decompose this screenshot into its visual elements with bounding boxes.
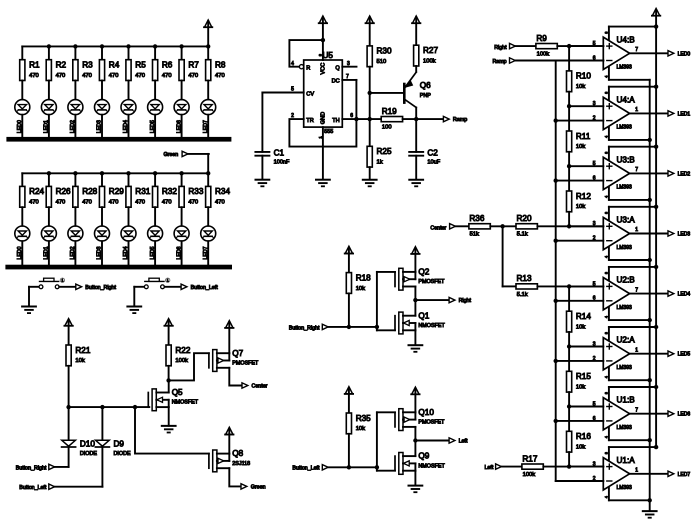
svg-text:10k: 10k bbox=[576, 204, 585, 210]
svg-text:PMOSFET: PMOSFET bbox=[418, 279, 445, 285]
svg-text:4: 4 bbox=[604, 76, 608, 78]
svg-text:10k: 10k bbox=[576, 385, 585, 391]
svg-text:U2:B: U2:B bbox=[617, 276, 636, 285]
svg-text:5.1k: 5.1k bbox=[517, 232, 528, 238]
svg-text:PMOSFET: PMOSFET bbox=[418, 420, 445, 426]
svg-text:CV: CV bbox=[306, 91, 314, 97]
svg-text:DIODE: DIODE bbox=[114, 451, 131, 457]
svg-text:R9: R9 bbox=[536, 34, 547, 43]
svg-text:LED1: LED1 bbox=[678, 111, 691, 117]
svg-text:R15: R15 bbox=[576, 372, 591, 381]
svg-text:R36: R36 bbox=[469, 214, 484, 223]
svg-text:Green: Green bbox=[251, 484, 266, 490]
svg-text:U3:B: U3:B bbox=[617, 155, 636, 164]
svg-text:10k: 10k bbox=[576, 144, 585, 150]
svg-text:Right: Right bbox=[494, 45, 507, 51]
svg-text:8: 8 bbox=[604, 212, 608, 214]
svg-text:100k: 100k bbox=[423, 58, 436, 64]
svg-text:C1: C1 bbox=[274, 149, 285, 158]
svg-text:LED5: LED5 bbox=[678, 352, 691, 358]
svg-text:470: 470 bbox=[56, 73, 66, 79]
svg-text:1: 1 bbox=[635, 227, 638, 233]
svg-text:100nF: 100nF bbox=[274, 159, 290, 165]
svg-text:DIODE: DIODE bbox=[80, 451, 97, 457]
svg-text:4: 4 bbox=[604, 376, 608, 378]
svg-text:Center: Center bbox=[252, 384, 268, 390]
svg-text:4: 4 bbox=[291, 61, 294, 67]
svg-text:U1:B: U1:B bbox=[617, 396, 636, 405]
svg-text:8: 8 bbox=[604, 152, 608, 154]
svg-text:4: 4 bbox=[604, 436, 608, 438]
svg-text:2: 2 bbox=[593, 356, 596, 362]
svg-text:R32: R32 bbox=[162, 187, 177, 196]
svg-text:R24: R24 bbox=[29, 187, 44, 196]
svg-text:LED2: LED2 bbox=[678, 171, 691, 177]
svg-text:NMOSFET: NMOSFET bbox=[172, 400, 199, 406]
svg-text:4: 4 bbox=[604, 496, 608, 498]
svg-text:510: 510 bbox=[377, 59, 387, 65]
svg-text:555: 555 bbox=[324, 129, 333, 135]
svg-text:100k: 100k bbox=[523, 472, 536, 478]
svg-text:D9: D9 bbox=[114, 440, 125, 449]
svg-text:1: 1 bbox=[61, 279, 63, 283]
svg-text:R34: R34 bbox=[215, 187, 230, 196]
svg-text:R27: R27 bbox=[423, 46, 438, 55]
svg-text:LED0: LED0 bbox=[678, 51, 691, 57]
svg-text:100: 100 bbox=[382, 125, 392, 131]
svg-text:U3:A: U3:A bbox=[617, 216, 636, 225]
svg-text:5.1k: 5.1k bbox=[517, 292, 528, 298]
svg-text:470: 470 bbox=[188, 73, 198, 79]
svg-text:R: R bbox=[306, 66, 310, 72]
svg-text:R31: R31 bbox=[135, 187, 150, 196]
svg-text:R3: R3 bbox=[82, 61, 93, 70]
svg-text:6: 6 bbox=[593, 296, 596, 302]
svg-text:1: 1 bbox=[167, 279, 169, 283]
svg-text:R7: R7 bbox=[188, 61, 199, 70]
svg-text:1: 1 bbox=[635, 468, 638, 474]
svg-text:Button_Left: Button_Left bbox=[19, 485, 47, 491]
svg-text:6: 6 bbox=[593, 176, 596, 182]
svg-text:DC: DC bbox=[332, 79, 340, 85]
svg-text:Ramp: Ramp bbox=[453, 117, 467, 123]
svg-text:10k: 10k bbox=[356, 286, 365, 292]
svg-text:PNP: PNP bbox=[420, 93, 431, 99]
svg-text:10k: 10k bbox=[75, 358, 84, 364]
svg-text:6: 6 bbox=[593, 416, 596, 422]
svg-text:R28: R28 bbox=[82, 187, 97, 196]
svg-text:2: 2 bbox=[593, 476, 596, 482]
svg-text:LED4: LED4 bbox=[678, 292, 691, 298]
svg-text:R5: R5 bbox=[135, 61, 146, 70]
svg-text:R8: R8 bbox=[215, 61, 226, 70]
svg-text:LM393: LM393 bbox=[617, 305, 633, 311]
svg-text:470: 470 bbox=[109, 200, 119, 206]
svg-text:PMOSFET: PMOSFET bbox=[232, 360, 259, 366]
svg-text:NMOSFET: NMOSFET bbox=[418, 323, 445, 329]
svg-text:4: 4 bbox=[604, 136, 608, 138]
svg-text:R21: R21 bbox=[75, 346, 90, 355]
svg-text:10k: 10k bbox=[576, 324, 585, 330]
svg-text:R18: R18 bbox=[356, 273, 371, 282]
svg-text:R29: R29 bbox=[109, 187, 124, 196]
svg-text:7: 7 bbox=[635, 47, 638, 53]
svg-text:TR: TR bbox=[306, 118, 313, 124]
svg-text:1: 1 bbox=[635, 347, 638, 353]
svg-text:R17: R17 bbox=[522, 454, 537, 463]
svg-text:4: 4 bbox=[604, 256, 608, 258]
svg-text:Q5: Q5 bbox=[172, 388, 183, 397]
svg-text:1: 1 bbox=[317, 136, 322, 139]
svg-text:8: 8 bbox=[604, 32, 608, 34]
svg-text:LM393: LM393 bbox=[617, 185, 633, 191]
svg-text:100k: 100k bbox=[537, 52, 550, 58]
svg-text:LM393: LM393 bbox=[617, 485, 633, 491]
svg-text:LM393: LM393 bbox=[617, 425, 633, 431]
svg-text:2SJ118: 2SJ118 bbox=[232, 461, 250, 467]
svg-text:8: 8 bbox=[604, 92, 608, 94]
svg-text:470: 470 bbox=[29, 200, 39, 206]
svg-text:Q6: Q6 bbox=[420, 81, 431, 90]
svg-text:R6: R6 bbox=[162, 61, 173, 70]
svg-text:100k: 100k bbox=[175, 358, 188, 364]
svg-text:R10: R10 bbox=[576, 72, 591, 81]
svg-text:LED6: LED6 bbox=[678, 412, 691, 418]
svg-text:470: 470 bbox=[56, 200, 66, 206]
svg-text:R13: R13 bbox=[517, 274, 532, 283]
svg-text:51k: 51k bbox=[470, 232, 479, 238]
svg-text:7: 7 bbox=[635, 287, 638, 293]
svg-text:2: 2 bbox=[593, 236, 596, 242]
svg-text:C2: C2 bbox=[427, 149, 438, 158]
svg-text:Center: Center bbox=[430, 225, 446, 231]
svg-text:3: 3 bbox=[593, 341, 596, 347]
svg-text:8: 8 bbox=[604, 332, 608, 334]
svg-text:1: 1 bbox=[635, 107, 638, 113]
svg-text:Right: Right bbox=[459, 298, 472, 304]
svg-text:Left: Left bbox=[484, 465, 493, 471]
svg-text:NMOSFET: NMOSFET bbox=[418, 463, 445, 469]
svg-text:470: 470 bbox=[29, 73, 39, 79]
svg-text:U4:A: U4:A bbox=[617, 95, 636, 104]
svg-text:R19: R19 bbox=[382, 107, 397, 116]
svg-text:R16: R16 bbox=[576, 432, 591, 441]
svg-text:LM393: LM393 bbox=[617, 125, 633, 131]
svg-text:Green: Green bbox=[163, 152, 178, 158]
svg-text:R25: R25 bbox=[377, 147, 392, 156]
svg-text:Q7: Q7 bbox=[232, 349, 243, 358]
svg-text:470: 470 bbox=[188, 200, 198, 206]
svg-text:8: 8 bbox=[604, 392, 608, 394]
svg-text:Button_Left: Button_Left bbox=[191, 285, 219, 291]
svg-text:5: 5 bbox=[593, 161, 596, 167]
svg-text:10k: 10k bbox=[356, 426, 365, 432]
svg-text:R26: R26 bbox=[56, 187, 71, 196]
svg-text:470: 470 bbox=[215, 73, 225, 79]
svg-text:Button_Right: Button_Right bbox=[16, 465, 47, 471]
svg-text:10k: 10k bbox=[576, 84, 585, 90]
svg-text:4: 4 bbox=[604, 196, 608, 198]
svg-text:470: 470 bbox=[135, 200, 145, 206]
svg-text:LM393: LM393 bbox=[617, 245, 633, 251]
svg-text:U5: U5 bbox=[323, 51, 334, 60]
svg-text:3: 3 bbox=[593, 101, 596, 107]
svg-text:R11: R11 bbox=[576, 132, 591, 141]
svg-text:Button_Left: Button_Left bbox=[292, 466, 320, 472]
svg-text:8: 8 bbox=[604, 272, 608, 274]
svg-text:TH: TH bbox=[332, 118, 339, 124]
svg-text:Ramp: Ramp bbox=[492, 59, 506, 65]
svg-text:470: 470 bbox=[82, 200, 92, 206]
svg-text:470: 470 bbox=[109, 73, 119, 79]
svg-text:4: 4 bbox=[604, 316, 608, 318]
svg-text:U2:A: U2:A bbox=[617, 336, 636, 345]
svg-text:LED3: LED3 bbox=[678, 232, 691, 238]
svg-text:U1:A: U1:A bbox=[617, 456, 636, 465]
svg-text:2: 2 bbox=[593, 116, 596, 122]
svg-text:R12: R12 bbox=[576, 192, 591, 201]
svg-text:R2: R2 bbox=[56, 61, 67, 70]
svg-text:R1: R1 bbox=[29, 61, 40, 70]
svg-text:LM393: LM393 bbox=[617, 65, 633, 71]
svg-text:Q10: Q10 bbox=[418, 408, 434, 417]
svg-text:Q9: Q9 bbox=[418, 452, 429, 461]
svg-text:R4: R4 bbox=[109, 61, 120, 70]
svg-text:8: 8 bbox=[604, 452, 608, 454]
svg-text:U4:B: U4:B bbox=[617, 35, 636, 44]
svg-text:R33: R33 bbox=[188, 187, 203, 196]
svg-text:470: 470 bbox=[215, 200, 225, 206]
svg-text:Button_Right: Button_Right bbox=[85, 285, 116, 291]
svg-text:Q: Q bbox=[335, 66, 340, 72]
svg-text:R35: R35 bbox=[356, 414, 371, 423]
svg-text:470: 470 bbox=[82, 73, 92, 79]
svg-text:Q2: Q2 bbox=[418, 268, 429, 277]
svg-text:7: 7 bbox=[635, 407, 638, 413]
svg-text:10uF: 10uF bbox=[427, 159, 440, 165]
svg-text:R20: R20 bbox=[517, 214, 532, 223]
svg-text:R22: R22 bbox=[175, 346, 190, 355]
svg-text:470: 470 bbox=[162, 200, 172, 206]
svg-text:D10: D10 bbox=[80, 440, 95, 449]
svg-text:5: 5 bbox=[593, 401, 596, 407]
svg-text:7: 7 bbox=[635, 167, 638, 173]
svg-text:1k: 1k bbox=[377, 160, 383, 166]
svg-text:10k: 10k bbox=[576, 445, 585, 451]
svg-text:LM393: LM393 bbox=[617, 365, 633, 371]
svg-text:Q1: Q1 bbox=[418, 311, 429, 320]
svg-text:VCC: VCC bbox=[320, 63, 326, 75]
svg-text:LED7: LED7 bbox=[678, 472, 691, 478]
svg-text:470: 470 bbox=[135, 73, 145, 79]
svg-text:R30: R30 bbox=[377, 47, 392, 56]
svg-text:Left: Left bbox=[459, 439, 468, 445]
svg-text:Button_Right: Button_Right bbox=[289, 325, 320, 331]
svg-text:GND: GND bbox=[320, 112, 326, 124]
svg-text:R14: R14 bbox=[576, 312, 591, 321]
svg-text:Q8: Q8 bbox=[232, 449, 243, 458]
svg-text:470: 470 bbox=[162, 73, 172, 79]
